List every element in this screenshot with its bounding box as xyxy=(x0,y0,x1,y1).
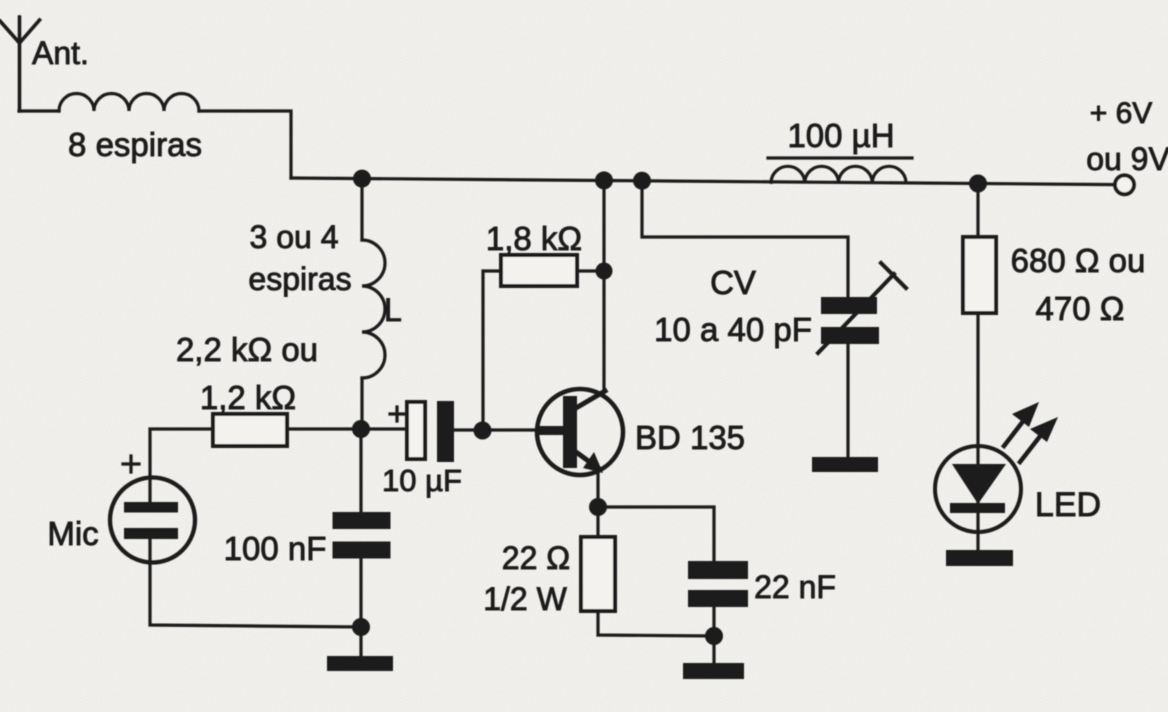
svg-text:8 espiras: 8 espiras xyxy=(68,126,202,163)
inductor 8 espiras xyxy=(59,94,199,112)
transistor base bar xyxy=(563,396,577,468)
terminal +6V open circle xyxy=(1115,175,1134,194)
wire supply node down to 680 xyxy=(976,183,979,237)
wire node to 10uF xyxy=(361,427,407,430)
junction node base xyxy=(474,422,492,440)
inductor L 3 ou 4 espiras xyxy=(362,240,385,378)
svg-text:1,8 kΩ: 1,8 kΩ xyxy=(486,220,582,257)
svg-text:470 Ω: 470 Ω xyxy=(1036,290,1125,327)
svg-text:2,2 kΩ ou: 2,2 kΩ ou xyxy=(176,331,318,368)
wire coil to rail corner xyxy=(199,111,291,178)
svg-text:3 ou 4: 3 ou 4 xyxy=(250,219,339,255)
svg-text:100 µH: 100 µH xyxy=(787,117,894,154)
svg-text:LED: LED xyxy=(1035,486,1101,524)
mic plate top xyxy=(124,502,178,513)
junction node rail-CV xyxy=(633,172,651,190)
svg-text:ou 9V: ou 9V xyxy=(1086,141,1168,177)
svg-text:L: L xyxy=(384,292,402,328)
ground under 22nF xyxy=(683,663,744,679)
junction node mic-100nF-ground xyxy=(352,618,370,636)
junction node rail-collector xyxy=(595,171,613,189)
junction node emitter xyxy=(589,498,607,516)
capacitor 10uF plate right (solid) xyxy=(437,401,454,462)
svg-text:BD 135: BD 135 xyxy=(635,419,745,456)
wire 1,8k left down to base node xyxy=(483,271,501,430)
capacitor 100nF plate bottom xyxy=(333,542,391,559)
wire L bottom xyxy=(360,378,363,429)
LED cathode bar xyxy=(950,503,1005,513)
junction node 22nF-ground xyxy=(705,627,723,645)
inductor 100uH xyxy=(771,166,906,182)
wire mic bottom xyxy=(150,539,361,627)
svg-text:Mic: Mic xyxy=(47,515,98,552)
wire 22nF to ground node xyxy=(712,608,715,663)
svg-text:10 a 40 pF: 10 a 40 pF xyxy=(654,311,812,348)
wire 100nF to ground node xyxy=(359,558,362,627)
transistor collector diagonal xyxy=(576,391,605,408)
CV trimmer diagonal xyxy=(818,274,894,353)
LED anode triangle xyxy=(952,464,1006,504)
svg-text:Ant.: Ant. xyxy=(32,35,89,71)
transistor base lead thick xyxy=(538,426,564,435)
mic plate bottom xyxy=(124,528,178,539)
svg-text:22 nF: 22 nF xyxy=(754,569,836,605)
wire node to 100nF xyxy=(359,429,362,513)
transistor emitter arrowhead xyxy=(583,452,603,473)
LED D1 body xyxy=(935,446,1021,532)
wire CV branch xyxy=(642,180,848,297)
LED arrowhead 1 xyxy=(1012,402,1039,427)
inductor 100uH overline xyxy=(768,156,912,159)
LED light arrow 1 xyxy=(1004,420,1024,446)
svg-text:espiras: espiras xyxy=(248,261,351,297)
CV trimmer T-bar xyxy=(881,263,906,288)
wire resistor left to mic xyxy=(150,429,213,502)
capacitor 22nF plate top xyxy=(688,561,748,579)
svg-text:680 Ω ou: 680 Ω ou xyxy=(1011,242,1146,279)
wire antenna to coil xyxy=(19,109,59,112)
svg-text:+ 6V: + 6V xyxy=(1090,97,1153,130)
LED arrowhead 2 xyxy=(1030,417,1058,442)
wire 22ohm bottom corner xyxy=(598,611,714,636)
microphone MIC body xyxy=(110,478,195,563)
svg-text:22 Ω: 22 Ω xyxy=(502,540,570,576)
wire L top xyxy=(360,178,363,240)
wire base node to transistor xyxy=(481,428,540,431)
wire 10uF to base node xyxy=(454,428,481,431)
wire main supply rail xyxy=(291,178,1115,185)
junction node rail-680 xyxy=(969,175,987,193)
capacitor 22nF plate bottom xyxy=(688,590,748,607)
wire resistor right to node xyxy=(287,427,361,430)
LED light arrow 2 xyxy=(1020,435,1041,462)
antenna ANT xyxy=(0,17,40,111)
wire ground stub xyxy=(359,627,362,656)
resistor 2,2k box xyxy=(213,414,287,446)
capacitor 10uF plate left (outline) xyxy=(407,402,425,459)
ground under 100nF xyxy=(327,656,393,671)
capacitor CV plate bottom xyxy=(821,327,879,344)
svg-text:100 nF: 100 nF xyxy=(224,530,327,567)
svg-text:CV: CV xyxy=(710,264,756,301)
svg-text:10 µF: 10 µF xyxy=(382,463,462,498)
svg-text:1,2 kΩ: 1,2 kΩ xyxy=(200,379,296,416)
wire 1,8k right to collector line xyxy=(577,269,604,272)
LED wire through xyxy=(976,447,979,532)
resistor 1,8k box xyxy=(501,255,577,286)
capacitor CV plate top xyxy=(821,297,877,314)
mic plus sign xyxy=(123,456,139,472)
svg-text:1/2 W: 1/2 W xyxy=(483,581,567,617)
junction node rail-L xyxy=(353,170,371,188)
junction node 1,8k-collector xyxy=(596,263,613,280)
transistor emitter diagonal xyxy=(576,452,598,468)
ground under CV xyxy=(812,457,878,472)
ground under LED xyxy=(946,550,1013,566)
wire 680 to LED xyxy=(976,313,979,447)
resistor 680 ohm box xyxy=(963,237,996,313)
resistor 22 ohm box xyxy=(581,537,615,611)
wire emitter down xyxy=(596,471,599,537)
transistor Q1 BD135 body xyxy=(537,389,623,475)
wire collector vertical xyxy=(602,179,605,392)
wire CV to ground xyxy=(846,344,849,457)
capacitor 100nF plate top xyxy=(333,512,391,529)
wire emitter node to 22nF xyxy=(598,507,714,561)
junction node L-2,2k xyxy=(352,420,370,438)
capacitor 10uF plus sign xyxy=(390,407,404,421)
wire LED to ground xyxy=(976,532,979,550)
